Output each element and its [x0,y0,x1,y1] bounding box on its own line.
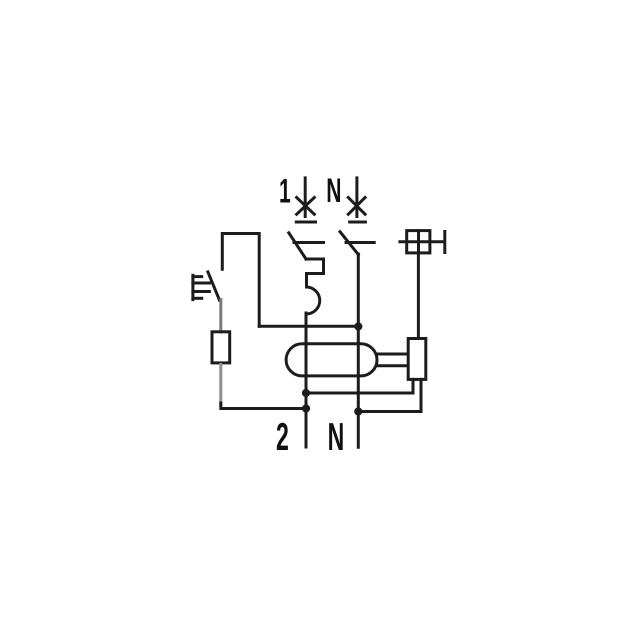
svg-text:N: N [326,171,341,209]
terminal 1 clamp X [297,198,315,215]
node relay-b on N conductor [354,407,362,415]
wire corner to node 2 [221,403,306,409]
terminal N clamp X [348,198,365,215]
terminal N bar [350,221,366,224]
svg-text:2: 2 [276,415,289,459]
node relay-a on pole 1 conductor [302,389,310,397]
test square right bar [443,232,446,253]
wire bracket to N node [259,325,358,328]
pole 1 switch tick [294,241,324,244]
node on N conductor (top) [354,322,362,330]
secondary winding neck (bottom) [377,364,407,367]
pole N switch blade [340,232,358,255]
resistor (test) [212,332,230,363]
pole N switch tick [346,241,374,244]
test branch top bracket [222,234,259,327]
test button blade [208,272,220,300]
toroid core (stadium) [286,344,377,376]
pole 1 overcurrent element (zigzag + arc) [306,259,324,314]
svg-text:1: 1 [279,171,291,209]
terminal N lead [355,178,358,217]
wire relay to test square [417,254,420,338]
node on pole 1 conductor (test return) [302,404,310,412]
pole 1 conductor [305,313,308,447]
test button square [407,231,430,253]
test square cross horizontal [400,240,443,243]
pole 1 switch blade [289,233,306,259]
terminal 1 bar [296,221,315,224]
wire resistor down (gray) [219,364,222,404]
wire relay terminal b to N [358,379,421,411]
test button actuator [193,275,210,299]
terminal 1 lead [304,178,307,217]
svg-text:N: N [328,415,345,459]
pole N conductor [357,254,360,447]
wire blade to resistor (gray) [219,300,222,332]
secondary winding neck (top) [377,353,407,356]
trip relay coil [408,339,426,380]
test square cross vertical [417,231,420,253]
wire relay terminal a to pole 1 [306,379,413,393]
